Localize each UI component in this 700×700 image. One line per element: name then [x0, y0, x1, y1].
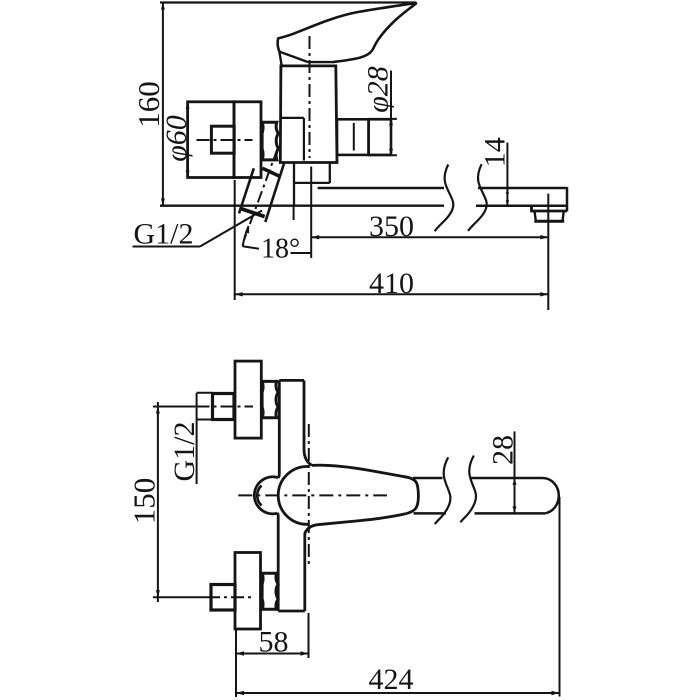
wire: spout top edge (left of break) — [318, 187, 444, 190]
svg-text:150: 150 — [127, 478, 162, 525]
faucet body outline (plan view) — [279, 379, 304, 382]
G1/2 leader line — [200, 211, 262, 247]
wire: spout bottom edge right — [476, 204, 567, 207]
node arrow 410 right — [540, 292, 548, 296]
angled shower connector right edge — [265, 163, 284, 222]
node arrow phi28 bottom — [389, 149, 393, 156]
break line S1 (plan) — [435, 457, 451, 524]
wire: body bottom cap — [278, 610, 305, 613]
wire: 410 dimension line — [235, 293, 549, 295]
wire: handle centerline (plan) — [238, 494, 387, 496]
break line S2 (top view) — [468, 164, 487, 231]
wire: bottom inlet centerline — [207, 596, 252, 598]
wire: spout bottom edge + 160 lower extension — [160, 205, 444, 207]
wire: second plate rect — [234, 102, 261, 178]
wire: top inlet pipe left edge + G1/2 underline — [196, 393, 198, 484]
G1/2 label underline — [133, 246, 201, 248]
spout end cap (plan) — [543, 478, 559, 513]
wire: skirt left edge — [279, 52, 281, 66]
wire: faucet body housing — [280, 66, 337, 163]
node arrow 424 right — [552, 691, 560, 695]
18 degree leader left — [243, 246, 259, 248]
wire: spout bottom edge left (plan) — [414, 512, 447, 515]
lever right end (plan) — [404, 477, 418, 514]
wire: phi28 extension bottom — [369, 154, 397, 156]
handle tip bump outer arc — [254, 477, 278, 514]
wire: bottom escutcheon plate — [235, 553, 261, 630]
node arrow phi28 top — [389, 119, 393, 126]
wire: top extension line (160 dim, upper) — [160, 1, 416, 3]
wire: stub outer part — [369, 119, 391, 155]
wire: body left edge upper — [278, 380, 279, 477]
wire: top inlet centerline — [197, 406, 254, 408]
node arrow 350 left — [311, 235, 319, 239]
wire: spout top edge left (plan) — [413, 477, 443, 480]
node arrow 150 top — [156, 407, 160, 414]
node arrow phi60 bottom — [186, 171, 190, 178]
node arrow 160 top — [161, 3, 165, 10]
wire: 150 extension top — [153, 406, 197, 408]
svg-text:18°: 18° — [261, 234, 300, 265]
node arrow 58 left — [236, 651, 244, 655]
wire: 150 dimension line — [157, 402, 159, 602]
node arrow 28 bottom — [513, 506, 517, 513]
wire: body right edge upper + fillet into lever — [304, 380, 312, 465]
node arrow 350 right — [540, 235, 548, 239]
wire: escutcheon plate rect (phi60) — [188, 102, 234, 178]
wire: union nut (side, wavy profile) — [262, 122, 278, 160]
break line S2 (plan) — [460, 456, 476, 523]
18 degree leader right — [291, 252, 312, 254]
lever dome nose arc (plan) — [278, 467, 309, 525]
svg-text:14: 14 — [479, 137, 512, 167]
wire: body step block — [294, 163, 330, 205]
wire: spout top edge (right of break) — [478, 187, 567, 190]
wire: horizontal centerline of inlet — [197, 139, 253, 141]
wire: spout right end — [566, 187, 569, 211]
nozzle collar step — [532, 206, 568, 211]
node arrow phi60 top — [186, 102, 190, 109]
wire: 150 extension bottom — [153, 596, 207, 598]
wire: upper band line — [307, 61, 334, 63]
wire: handle skirt diagonal — [279, 52, 307, 62]
wire: spout bottom edge right (plan) — [475, 512, 546, 515]
wire: bottom union nut (wavy) — [262, 573, 278, 609]
wire: 424 extension right — [559, 497, 561, 697]
node arrow 424 left — [236, 691, 244, 695]
lever top edge (plan) — [312, 465, 406, 477]
nozzle aerator sides — [535, 212, 564, 221]
wire: angled connector centerline — [244, 148, 278, 240]
wire: top escutcheon plate — [235, 361, 261, 438]
svg-text:410: 410 — [369, 267, 414, 300]
wire: 350 dimension line — [311, 236, 548, 238]
svg-text:424: 424 — [369, 663, 414, 696]
wire: stub divider — [353, 123, 355, 151]
wire: body vertical centerline — [309, 36, 311, 158]
wire: body vertical centerline (plan) — [308, 424, 310, 568]
wire: top union nut (wavy) — [262, 381, 278, 417]
18 degree dimension arc — [243, 226, 249, 246]
nozzle aerator lip — [534, 220, 564, 223]
wire: 160 dimension line — [162, 3, 164, 206]
angled connector nut band — [262, 168, 279, 176]
lever handle underside — [334, 3, 417, 62]
angled connector end cap — [241, 209, 265, 217]
node arrow 160 bottom — [161, 199, 165, 206]
wire: bottom hex nut — [211, 585, 235, 611]
wire: 58 dimension line — [236, 653, 309, 655]
handle tip bump inner arc — [257, 486, 261, 506]
svg-text:58: 58 — [259, 626, 289, 659]
wire: 424 dimension line — [236, 692, 560, 694]
node arrow 28 top — [513, 478, 517, 485]
break line S1 (top view) — [435, 165, 454, 232]
wire: 58 extension right — [308, 613, 310, 658]
wire: 410 extension line — [234, 180, 236, 300]
svg-text:G1/2: G1/2 — [168, 422, 201, 482]
svg-text:φ28: φ28 — [362, 66, 395, 113]
wire: body right edge lower + fillet from lever — [305, 525, 318, 611]
wire: G1/2 inlet pipe (side) — [211, 126, 234, 153]
wire: spout top edge right (plan) — [471, 477, 543, 480]
node arrow 150 bottom — [156, 590, 160, 597]
angled shower connector left edge — [239, 168, 254, 213]
svg-text:φ60: φ60 — [160, 115, 193, 162]
wire: 58 extension left — [235, 629, 237, 697]
node arrow 58 right — [301, 651, 309, 655]
wire: 14 dimension line — [506, 143, 508, 206]
wire: 350 extension line — [310, 167, 312, 259]
wire: 28 dimension line (plan) — [514, 431, 516, 513]
wire: short line below spout — [293, 206, 295, 220]
node arrow 14 top — [506, 188, 509, 194]
node arrow 14 bottom — [506, 200, 509, 206]
wire: phi28 extension top — [369, 118, 397, 120]
lever handle blade — [278, 3, 417, 52]
wire: phi28 dimension line — [390, 71, 392, 156]
wire: nozzle centerline / right extension — [547, 194, 549, 310]
node arrow 410 left — [235, 292, 243, 296]
lever bottom edge (plan) — [318, 514, 406, 525]
svg-text:350: 350 — [369, 210, 414, 243]
wire: body left edge lower — [276, 513, 279, 611]
wire: inner body step lines — [280, 118, 304, 161]
svg-text:G1/2: G1/2 — [134, 218, 194, 251]
wire: top hex nut — [213, 394, 235, 420]
wire: top inlet pipe end — [197, 393, 213, 420]
svg-text:28: 28 — [487, 435, 520, 465]
wire: shower outlet stub — [337, 119, 369, 155]
